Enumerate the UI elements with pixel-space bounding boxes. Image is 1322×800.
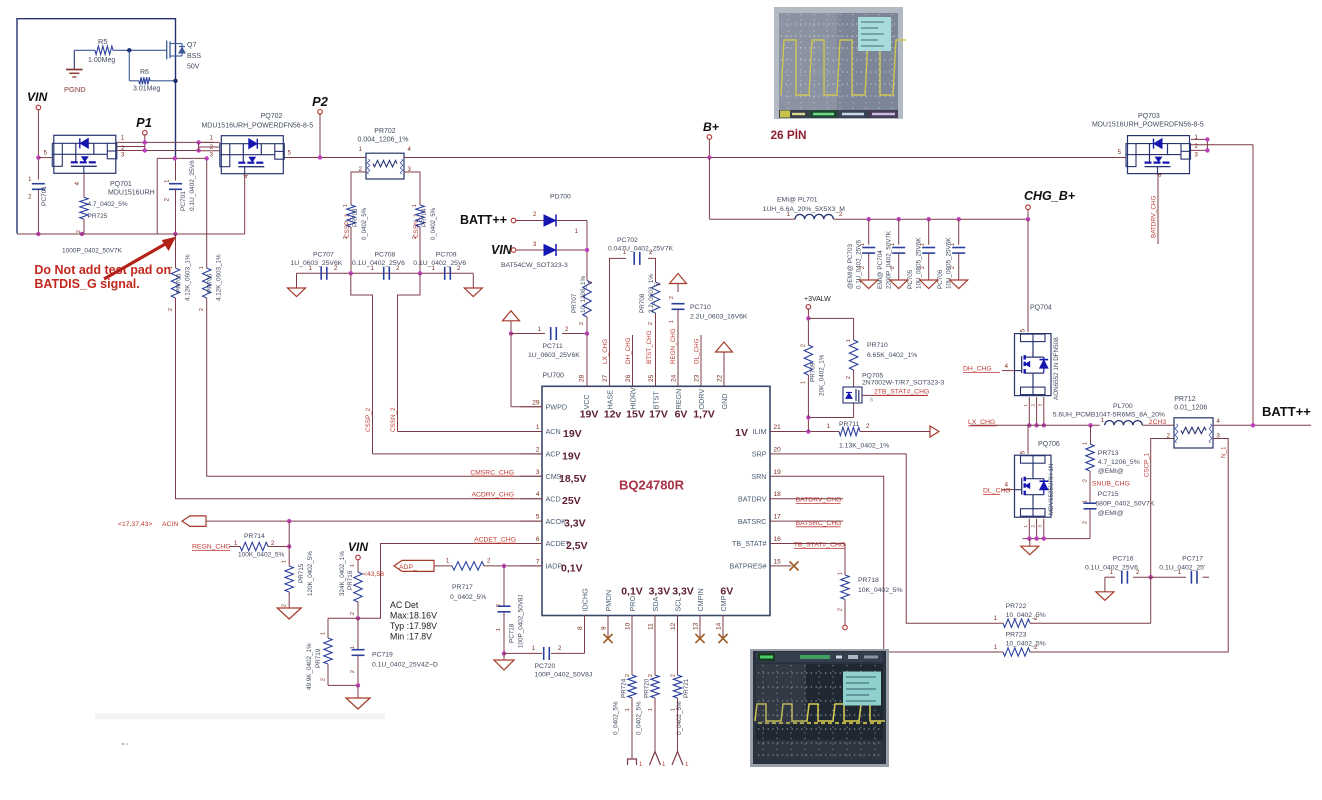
svg-text:PGND: PGND <box>64 85 86 94</box>
svg-text:CHG_B+: CHG_B+ <box>1024 189 1076 203</box>
wire PQ703 pin4 BATDRV <box>1158 173 1164 244</box>
capacitor PC708 <box>352 252 405 280</box>
wire PC711 row <box>511 333 587 335</box>
svg-text:4.7_1206_5%: 4.7_1206_5% <box>1098 459 1140 466</box>
node +3VALW junction <box>806 316 810 320</box>
resistor PR708 <box>639 274 662 325</box>
svg-text:SCL: SCL <box>673 598 682 612</box>
label BATSRC_CHG net <box>792 520 844 527</box>
node LX junction 1 <box>1027 423 1031 427</box>
node VCC junction <box>585 331 589 335</box>
label 2CH3 <box>1149 419 1167 426</box>
node P1 junction 2 <box>143 148 147 152</box>
node B+ <box>703 120 719 139</box>
resistor PR709 <box>801 318 826 417</box>
svg-text:1: 1 <box>648 708 654 711</box>
wire PQ702 pin5 to rail <box>285 151 366 158</box>
svg-text:DH_CHG: DH_CHG <box>625 337 632 364</box>
svg-text:120K_0402_5%: 120K_0402_5% <box>307 551 314 596</box>
svg-text:EMI@ PC704: EMI@ PC704 <box>877 250 884 289</box>
transistor PQ703 <box>1092 113 1204 174</box>
svg-text:10_0402_5%: 10_0402_5% <box>1006 641 1046 648</box>
wire CMSRC net <box>206 234 208 257</box>
svg-text:BATDRV_CHG: BATDRV_CHG <box>1151 195 1158 238</box>
svg-text:27: 27 <box>602 374 609 382</box>
wire PQ703 right pins <box>1191 135 1253 159</box>
capacitor PC704 <box>877 217 908 289</box>
svg-text:CMPIN: CMPIN <box>696 588 705 611</box>
svg-text:VIN: VIN <box>491 243 513 257</box>
node P2 rail junction <box>318 155 322 159</box>
svg-text:REGN_CHG: REGN_CHG <box>192 543 231 550</box>
wire BATT++ to diode <box>516 212 544 221</box>
wire IC right pin stubs <box>770 424 792 566</box>
label ACDET_CHG <box>474 537 516 544</box>
svg-text:12: 12 <box>670 622 677 630</box>
svg-text:PC709: PC709 <box>436 252 457 259</box>
svg-text:PQ704: PQ704 <box>1030 305 1052 312</box>
resistor PR703 <box>343 199 368 240</box>
svg-text:PC711: PC711 <box>543 343 563 350</box>
svg-text:2N7002W-T/R7_SOT323-3: 2N7002W-T/R7_SOT323-3 <box>862 380 944 387</box>
wire CSSN_1 from PR702 pin3 <box>404 172 420 199</box>
svg-text:680P_0402_50V7K: 680P_0402_50V7K <box>1095 501 1154 508</box>
label top voltages <box>580 409 715 421</box>
svg-text:16: 16 <box>774 536 782 543</box>
node P2 <box>312 94 328 114</box>
svg-text:P1: P1 <box>136 115 152 130</box>
wire PQ702 junction bar <box>198 142 200 150</box>
wire VCC to pin28 <box>586 334 588 387</box>
wire ACIN to PR715 <box>288 521 290 558</box>
svg-text:BTST: BTST <box>651 391 660 410</box>
svg-text:1U_0603_25V6K: 1U_0603_25V6K <box>528 352 580 359</box>
wire PR721 down <box>677 703 679 752</box>
wire PHASE up <box>610 258 627 386</box>
svg-text:19V: 19V <box>563 428 582 440</box>
wire PQ702 pin4 <box>244 174 250 234</box>
wire SRP net <box>792 454 1000 623</box>
svg-text:@EMI@: @EMI@ <box>1098 468 1124 475</box>
svg-text:14: 14 <box>716 622 723 630</box>
svg-text:1000P_0402_50V7K: 1000P_0402_50V7K <box>62 248 123 255</box>
wire PR716 to node <box>357 604 359 618</box>
wire CSCP down to SRP row <box>1150 577 1152 623</box>
label LX_CHG <box>968 419 997 426</box>
svg-text:PC718: PC718 <box>509 623 516 643</box>
node X pin14 CMP <box>718 634 727 643</box>
node PC718 gnd junction <box>502 651 506 655</box>
node X pin9 PMON <box>603 634 612 643</box>
wire ACDRV net <box>175 234 177 257</box>
power arrow GND pin22 <box>716 342 733 386</box>
svg-text:1: 1 <box>343 204 349 207</box>
svg-text:50V: 50V <box>187 64 200 71</box>
power arrow REGN <box>670 274 687 293</box>
capacitor PC706 <box>937 217 968 289</box>
svg-text:0,1V: 0,1V <box>561 562 583 574</box>
label DL_CHG <box>983 488 1011 495</box>
label CSSP_1 <box>344 213 351 238</box>
svg-text:HASE: HASE <box>605 390 614 410</box>
svg-text:25: 25 <box>648 374 655 382</box>
resistor PR718 <box>838 567 903 611</box>
wire PR705 to pin4 <box>176 300 543 499</box>
svg-text:PR709: PR709 <box>810 362 817 382</box>
node stray dots <box>122 743 128 745</box>
svg-text:2200P_0402_50V7K: 2200P_0402_50V7K <box>886 230 893 289</box>
svg-text:0.1U_0402_25V6: 0.1U_0402_25V6 <box>1085 564 1138 571</box>
label node voltage 43,58 <box>363 571 384 578</box>
svg-text:5: 5 <box>536 514 540 521</box>
capacitor PC718 <box>496 566 525 654</box>
label TB_STAT#_CHG net <box>792 542 846 549</box>
svg-text:2.2_0603_1%: 2.2_0603_1% <box>648 274 655 313</box>
wire DL_CHG pin23 <box>700 335 702 386</box>
svg-text:BTST_CHG: BTST_CHG <box>646 330 653 364</box>
svg-text:3,3V: 3,3V <box>564 518 586 530</box>
svg-text:BATDRV: BATDRV <box>738 494 767 503</box>
svg-text:15V: 15V <box>626 409 645 421</box>
svg-text:15: 15 <box>774 558 782 565</box>
capacitor PC701 second <box>165 160 197 211</box>
svg-text:PR720: PR720 <box>644 678 651 698</box>
wire VIN to diode <box>516 242 544 250</box>
svg-text:GND: GND <box>720 394 729 410</box>
resistor PR717 <box>450 559 491 602</box>
svg-text:4.12K_0603_1%: 4.12K_0603_1% <box>185 254 192 301</box>
wire junction down to R6 <box>129 50 139 81</box>
image scope photo top <box>774 7 906 119</box>
wire CSSN_2 descent <box>398 273 421 431</box>
svg-text:1: 1 <box>536 424 540 431</box>
wire top rail PR702 to PQ703 <box>404 157 1118 159</box>
node SCL connector <box>672 752 689 769</box>
svg-text:4.7_0402_5%: 4.7_0402_5% <box>88 201 128 208</box>
label CMSRC_CHG <box>470 469 514 476</box>
wire PWPD descent <box>511 334 542 407</box>
capacitor PC710 <box>669 296 748 323</box>
svg-text:1: 1 <box>199 266 205 269</box>
wire +3VALW down <box>807 309 809 318</box>
node ACDET divider junction <box>356 616 360 620</box>
svg-text:3,3V: 3,3V <box>672 586 694 598</box>
svg-text:PR723: PR723 <box>1006 632 1027 639</box>
svg-text:21: 21 <box>774 424 782 431</box>
svg-text:10K_0402_5%: 10K_0402_5% <box>858 587 903 594</box>
svg-text:PRO: PRO <box>628 596 637 612</box>
node R6-source junction <box>173 79 177 83</box>
wire N_1 from PR712 pin3 <box>1202 439 1228 653</box>
svg-text:2: 2 <box>625 674 631 677</box>
wire SRN net <box>792 476 1000 652</box>
node source-col junction B <box>205 156 209 160</box>
svg-text:29: 29 <box>532 399 540 406</box>
label CSSN_2 <box>390 407 397 432</box>
svg-text:2: 2 <box>343 236 349 239</box>
svg-text:PC708: PC708 <box>375 252 396 259</box>
resistor PR702 <box>358 128 412 179</box>
resistor PR707 <box>571 275 594 325</box>
svg-text:0_0402_5%: 0_0402_5% <box>613 701 620 735</box>
ground PQ706 <box>1021 539 1039 555</box>
svg-text:0_0402_5%: 0_0402_5% <box>636 701 643 735</box>
transistor Q7 <box>167 41 202 71</box>
wire CHG to PQ704 <box>1027 219 1029 332</box>
wire BATT++ rail <box>1213 424 1311 426</box>
svg-text:PQ702: PQ702 <box>261 113 283 120</box>
svg-text:ODRV: ODRV <box>697 389 706 410</box>
svg-text:ACP: ACP <box>546 450 561 459</box>
svg-text:17: 17 <box>774 514 782 521</box>
svg-text:MDU1516URH_POWERDFN56-8-5: MDU1516URH_POWERDFN56-8-5 <box>201 123 313 130</box>
wire P1 down <box>144 135 146 151</box>
svg-text:0.1U_0402_25': 0.1U_0402_25' <box>1159 564 1205 571</box>
svg-text:2: 2 <box>199 308 205 311</box>
node PC701b rail junction <box>173 232 177 236</box>
node cap row junction CSSN <box>418 271 422 275</box>
diode PD700 <box>501 194 571 270</box>
svg-text:HIDRV: HIDRV <box>628 387 637 409</box>
svg-text:28: 28 <box>579 374 586 382</box>
wire CSSP_2 descent <box>351 273 373 454</box>
svg-text:4.12K_0603_1%: 4.12K_0603_1% <box>216 254 223 301</box>
wire CSSP_1 from PR702 pin2 <box>351 172 366 199</box>
svg-text:PQ701: PQ701 <box>110 181 132 188</box>
svg-text:1: 1 <box>1083 500 1089 503</box>
wire to PR710 <box>808 318 853 340</box>
capacitor PC717 <box>1151 556 1209 584</box>
resistor PR704 <box>412 199 437 240</box>
svg-text:SRP: SRP <box>752 450 767 459</box>
wire pin12 SCL down <box>671 637 678 677</box>
label IC top pin names <box>582 387 729 409</box>
node VIN divider label <box>348 540 368 560</box>
svg-text:2: 2 <box>838 608 844 611</box>
label SNUB_CHG <box>1092 481 1130 488</box>
capacitor PC707 <box>291 252 343 280</box>
svg-text:BSS: BSS <box>187 53 201 60</box>
ground cap row right <box>464 273 482 296</box>
node PQ703 out junction 1 <box>1205 137 1209 141</box>
svg-text:1: 1 <box>671 708 677 711</box>
node VIN rail junction <box>36 232 40 236</box>
svg-text:100P_0402_50V8J: 100P_0402_50V8J <box>518 594 525 648</box>
svg-text:PC720: PC720 <box>535 663 556 670</box>
label REGN_CHG_1 <box>192 541 238 551</box>
node ACIN flag <box>182 516 206 527</box>
svg-text:2: 2 <box>496 604 502 607</box>
transistor PQ706 <box>1015 441 1060 517</box>
svg-text:1.00Meg: 1.00Meg <box>88 57 115 64</box>
node annotation arrow <box>104 238 175 280</box>
resistor PR714 <box>238 533 284 559</box>
svg-text:DH_CHG: DH_CHG <box>963 365 992 372</box>
svg-text:6V: 6V <box>720 586 733 598</box>
svg-text:PR717: PR717 <box>452 584 473 591</box>
capacitor PC703 <box>847 217 878 289</box>
svg-text:BAT54CW_SOT323-3: BAT54CW_SOT323-3 <box>501 262 568 269</box>
svg-text:0,1V: 0,1V <box>621 586 643 598</box>
svg-text:0.1U_0402_25V6: 0.1U_0402_25V6 <box>856 239 863 289</box>
label BTST_CHG <box>646 330 653 364</box>
svg-text:SDA: SDA <box>651 597 660 612</box>
svg-text:PR707: PR707 <box>571 293 578 313</box>
svg-text:BATDRV_CHG: BATDRV_CHG <box>796 497 842 504</box>
ground PGND <box>64 50 86 94</box>
svg-text:BQ24780R: BQ24780R <box>619 478 685 493</box>
resistor PR705 <box>168 254 192 311</box>
svg-text:ACDRV_CHG: ACDRV_CHG <box>471 492 514 499</box>
label BATDRV_CHG vertical <box>1151 195 1158 238</box>
svg-text:BATPRES#: BATPRES# <box>729 562 766 571</box>
svg-text:13: 13 <box>693 622 700 630</box>
svg-text:0_0402_5%: 0_0402_5% <box>431 207 437 240</box>
wire LX to PQ706 <box>1027 425 1029 453</box>
svg-text:TB_STAT#: TB_STAT# <box>732 539 766 548</box>
resistor PR719 <box>306 630 332 690</box>
svg-text:VIN: VIN <box>348 540 368 554</box>
svg-text:2: 2 <box>669 296 675 299</box>
svg-text:1: 1 <box>496 628 502 631</box>
svg-text:2: 2 <box>536 446 540 453</box>
svg-text:19V: 19V <box>580 409 599 421</box>
svg-text:1: 1 <box>412 204 418 207</box>
label 2TB_STAT#_CHG <box>870 389 929 404</box>
label right voltage ILIM <box>735 427 748 439</box>
transistor PQ702 <box>201 113 313 174</box>
capacitor PC720 <box>532 646 593 679</box>
svg-text:REGN: REGN <box>674 389 683 410</box>
label Do-Not annotation <box>34 263 171 291</box>
svg-text:17V: 17V <box>649 409 668 421</box>
svg-text:PC710: PC710 <box>690 304 711 311</box>
svg-text:2: 2 <box>350 670 356 673</box>
wire PQ701 pins to P1 <box>117 136 213 159</box>
svg-text:PR721: PR721 <box>683 678 690 698</box>
svg-text:2: 2 <box>168 308 174 311</box>
svg-text:CSSP_2: CSSP_2 <box>365 407 372 432</box>
wire PR717 to pin7 <box>484 565 542 567</box>
wire ACN row <box>398 431 543 433</box>
svg-text:6.65K_0402_1%: 6.65K_0402_1% <box>867 352 917 359</box>
svg-text:PQ703: PQ703 <box>1138 113 1160 120</box>
wire IC bottom pin stubs <box>577 616 723 638</box>
transistor PQ705 <box>843 373 944 404</box>
wire PC701 to rail <box>37 189 39 234</box>
wire ACP row <box>373 453 543 455</box>
resistor PR722 <box>994 603 1151 627</box>
svg-text:PR713: PR713 <box>1098 450 1119 457</box>
svg-text:AC Det: AC Det <box>390 600 419 610</box>
svg-text:Q7: Q7 <box>187 42 196 49</box>
svg-text:2.2U_0603_16V6K: 2.2U_0603_16V6K <box>690 314 748 321</box>
svg-text:4: 4 <box>536 491 540 498</box>
wire PQ706 source rail <box>1023 538 1091 540</box>
svg-text:20K_0402_1%: 20K_0402_1% <box>819 354 826 396</box>
wire PQ703 to BATT++ rail <box>1252 145 1254 426</box>
capacitor PC709 <box>413 252 466 280</box>
capacitor PC716 <box>1085 556 1151 584</box>
svg-text:0_0402_5%: 0_0402_5% <box>362 207 368 240</box>
node BATT++ input <box>460 213 516 227</box>
svg-text:LX_CHG: LX_CHG <box>602 339 609 364</box>
svg-text:Typ :17.98V: Typ :17.98V <box>390 621 437 631</box>
node diode common junction <box>585 248 589 252</box>
wire CSCP from PR712 pin2 <box>1151 439 1174 578</box>
wire PQ702 left pins <box>199 136 220 159</box>
wire cap row <box>297 272 474 274</box>
node faint streak <box>95 714 385 720</box>
svg-text:ILIM: ILIM <box>753 427 767 436</box>
svg-text:BATDIS_G signal.: BATDIS_G signal. <box>34 277 139 291</box>
svg-text:0.1U_0402_25V4Z~D: 0.1U_0402_25V4Z~D <box>372 662 438 669</box>
wire ACOK row <box>206 520 542 522</box>
wire PC702 to PR708 <box>648 258 656 282</box>
resistor PR711 <box>827 421 930 450</box>
label IC top pin numbers <box>579 374 724 382</box>
wire node to PR719 <box>328 618 358 630</box>
svg-text:20: 20 <box>774 446 782 453</box>
node source junction 1 <box>1027 536 1031 540</box>
node VCC row left junction <box>509 331 513 335</box>
svg-text:PC717: PC717 <box>1182 556 1203 563</box>
label IC right pin names <box>729 427 766 570</box>
svg-text:10_1206_1%: 10_1206_1% <box>580 275 587 313</box>
ground ACDET divider <box>346 685 370 709</box>
wire PR706 to pin3 <box>207 300 542 476</box>
svg-text:1: 1 <box>321 632 327 635</box>
svg-text:1: 1 <box>588 281 594 284</box>
wire B+ down <box>708 139 710 157</box>
wire PC720 row <box>504 616 585 654</box>
node VIN-pin5 junction <box>36 155 40 159</box>
svg-text:PC707: PC707 <box>313 252 334 259</box>
svg-text:1.13K_0402_1%: 1.13K_0402_1% <box>839 443 889 450</box>
wire R5 to gate <box>113 49 167 51</box>
svg-text:BATSRC: BATSRC <box>738 517 767 526</box>
svg-text:B+: B+ <box>703 120 719 134</box>
wire VIN to PR716 <box>357 560 359 568</box>
wire Q7 source column <box>157 158 207 234</box>
label CSSN_1 <box>413 213 420 238</box>
svg-text:0_0402_5%: 0_0402_5% <box>450 594 486 601</box>
svg-text:2: 2 <box>321 678 327 681</box>
svg-text:BATT++: BATT++ <box>460 213 507 227</box>
svg-text:2,5V: 2,5V <box>566 540 588 552</box>
wire P2 down <box>319 114 321 158</box>
svg-text:CMP: CMP <box>719 595 728 611</box>
label IC left pin names <box>546 403 571 571</box>
svg-text:1V: 1V <box>735 427 748 439</box>
svg-text:49.9K_0402_1%: 49.9K_0402_1% <box>306 643 313 690</box>
node X pin15 BATPRES# <box>789 561 798 570</box>
svg-text:N_1: N_1 <box>1221 446 1228 458</box>
svg-text:R6: R6 <box>140 69 149 76</box>
wire pin11 SDA down <box>648 637 655 677</box>
svg-text:PR724: PR724 <box>621 678 628 698</box>
node LX junction 3 <box>1042 423 1046 427</box>
label ACDRV_CHG <box>471 492 514 499</box>
label AC Det note <box>390 600 437 642</box>
svg-text:0.01_1206: 0.01_1206 <box>1174 405 1207 412</box>
resistor PR724 <box>613 670 637 736</box>
svg-text:1: 1 <box>656 283 662 286</box>
node B+ rail junction <box>707 155 711 159</box>
svg-text:Do Not add test pad on: Do Not add test pad on <box>34 263 171 277</box>
svg-text:PR714: PR714 <box>244 533 265 540</box>
label LX_CHG pin27 <box>602 339 609 364</box>
